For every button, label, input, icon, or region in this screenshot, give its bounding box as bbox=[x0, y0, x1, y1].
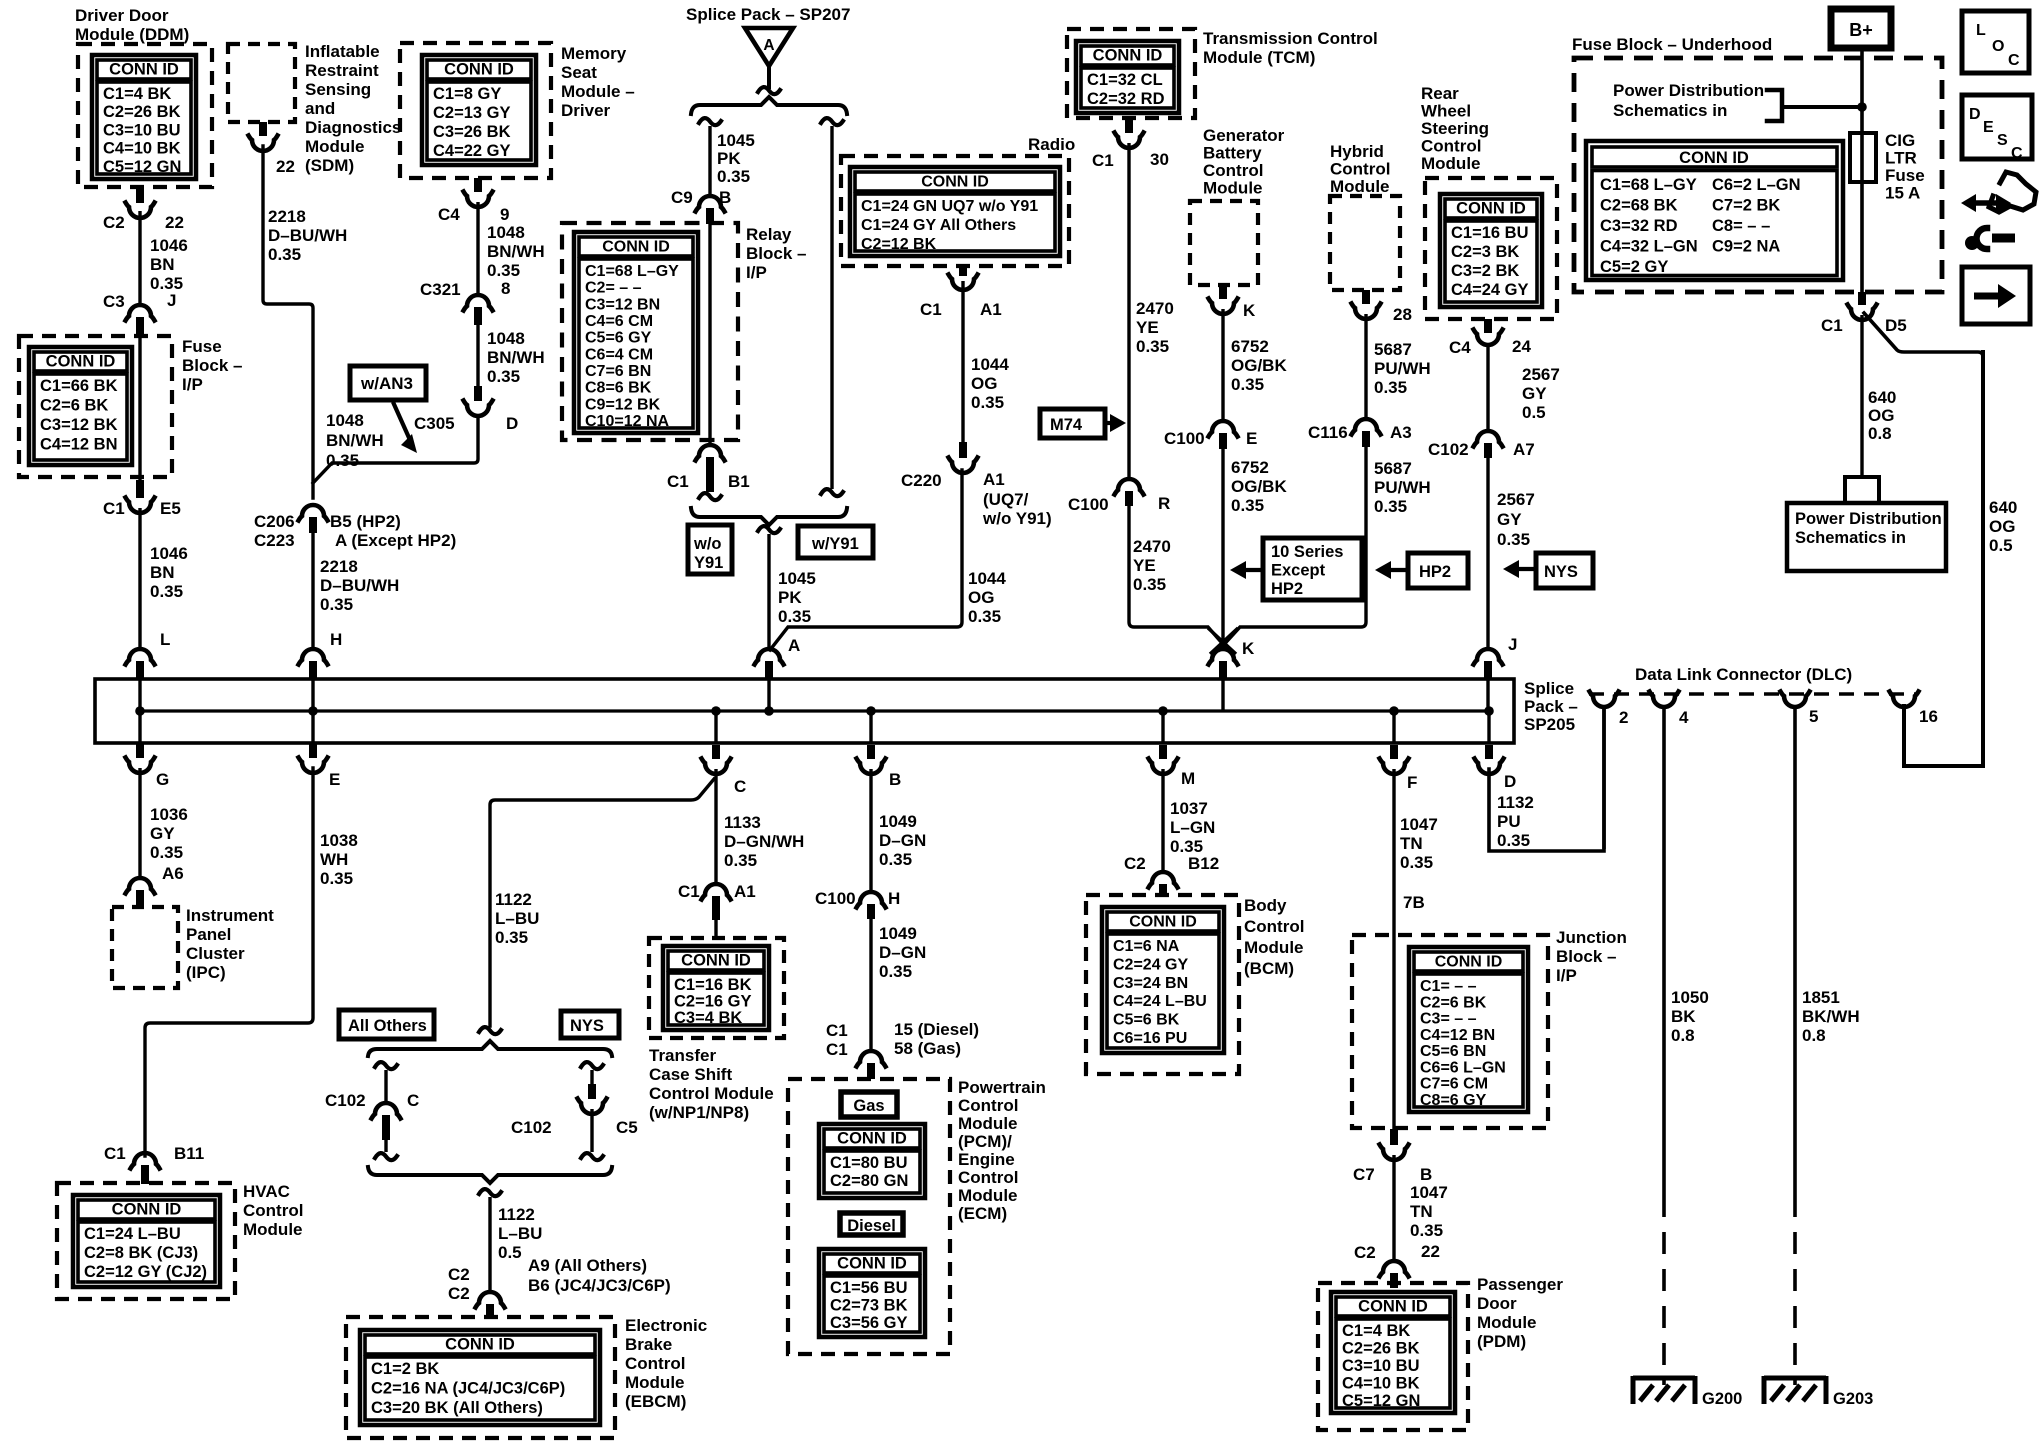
svg-text:Power Distribution: Power Distribution bbox=[1613, 81, 1764, 100]
svg-text:1046: 1046 bbox=[150, 544, 188, 563]
svg-text:0.35: 0.35 bbox=[1231, 375, 1264, 394]
svg-text:0.8: 0.8 bbox=[1868, 424, 1892, 443]
svg-text:OG: OG bbox=[971, 374, 997, 393]
svg-text:Control: Control bbox=[625, 1354, 685, 1373]
svg-text:Passenger: Passenger bbox=[1477, 1275, 1563, 1294]
svg-text:640: 640 bbox=[1989, 498, 2017, 517]
svg-text:C5=12 GN: C5=12 GN bbox=[1342, 1392, 1420, 1410]
svg-text:C223: C223 bbox=[254, 531, 295, 550]
svg-text:OG: OG bbox=[1989, 517, 2015, 536]
svg-text:0.35: 0.35 bbox=[1400, 853, 1433, 872]
svg-text:Module: Module bbox=[243, 1220, 303, 1239]
svg-text:NYS: NYS bbox=[1544, 563, 1578, 581]
svg-text:C2=3 BK: C2=3 BK bbox=[1451, 243, 1519, 261]
svg-text:J: J bbox=[167, 291, 176, 310]
svg-text:YE: YE bbox=[1133, 556, 1156, 575]
svg-text:8: 8 bbox=[501, 279, 510, 298]
svg-text:Driver: Driver bbox=[561, 101, 611, 120]
svg-text:Control: Control bbox=[958, 1096, 1018, 1115]
svg-text:C3=10 BU: C3=10 BU bbox=[103, 121, 181, 139]
svg-text:C8=6 BK: C8=6 BK bbox=[585, 380, 652, 397]
svg-text:A9 (All Others): A9 (All Others) bbox=[528, 1256, 647, 1275]
svg-text:TN: TN bbox=[1410, 1202, 1433, 1221]
svg-text:C1=32 CL: C1=32 CL bbox=[1087, 71, 1163, 89]
svg-text:1038: 1038 bbox=[320, 831, 358, 850]
svg-text:Control: Control bbox=[1330, 160, 1390, 179]
svg-text:B6 (JC4/JC3/C6P): B6 (JC4/JC3/C6P) bbox=[528, 1276, 671, 1295]
svg-text:Hybrid: Hybrid bbox=[1330, 142, 1384, 161]
svg-text:Rear: Rear bbox=[1421, 84, 1459, 103]
svg-text:C6=16 PU: C6=16 PU bbox=[1113, 1030, 1187, 1047]
svg-text:16: 16 bbox=[1919, 707, 1938, 726]
svg-text:C1=8 GY: C1=8 GY bbox=[433, 85, 501, 103]
svg-text:1122: 1122 bbox=[498, 1205, 535, 1224]
svg-text:0.35: 0.35 bbox=[717, 167, 750, 186]
svg-text:1046: 1046 bbox=[150, 236, 188, 255]
svg-text:C6=2 L–GN: C6=2 L–GN bbox=[1712, 176, 1801, 194]
svg-text:All Others: All Others bbox=[348, 1017, 427, 1035]
svg-text:1851: 1851 bbox=[1802, 988, 1840, 1007]
svg-text:B12: B12 bbox=[1188, 854, 1219, 873]
svg-text:C1=66 BK: C1=66 BK bbox=[40, 377, 118, 395]
svg-text:OG/BK: OG/BK bbox=[1231, 356, 1287, 375]
svg-text:K: K bbox=[1242, 639, 1255, 658]
svg-text:CONN ID: CONN ID bbox=[445, 1336, 515, 1354]
svg-text:0.35: 0.35 bbox=[724, 851, 757, 870]
svg-text:A: A bbox=[763, 37, 774, 54]
svg-text:C2=16 NA (JC4/JC3/C6P): C2=16 NA (JC4/JC3/C6P) bbox=[371, 1380, 565, 1398]
svg-text:R: R bbox=[1158, 494, 1170, 513]
svg-text:B: B bbox=[889, 770, 901, 789]
svg-text:Module (DDM): Module (DDM) bbox=[75, 25, 189, 44]
svg-text:Panel: Panel bbox=[186, 925, 231, 944]
svg-text:CONN ID: CONN ID bbox=[1435, 954, 1503, 971]
svg-text:Memory: Memory bbox=[561, 44, 627, 63]
svg-text:1037: 1037 bbox=[1170, 799, 1208, 818]
svg-text:C6=4 CM: C6=4 CM bbox=[585, 346, 653, 363]
svg-text:30: 30 bbox=[1150, 150, 1169, 169]
svg-text:Block –: Block – bbox=[746, 244, 806, 263]
svg-text:CONN ID: CONN ID bbox=[1093, 47, 1163, 65]
svg-text:2218: 2218 bbox=[268, 207, 306, 226]
svg-text:C1: C1 bbox=[1821, 316, 1843, 335]
svg-text:C321: C321 bbox=[420, 280, 461, 299]
svg-text:PU/WH: PU/WH bbox=[1374, 359, 1431, 378]
svg-text:Door: Door bbox=[1477, 1294, 1517, 1313]
svg-text:C2: C2 bbox=[448, 1265, 470, 1284]
svg-text:0.5: 0.5 bbox=[1522, 403, 1546, 422]
svg-text:Schematics in: Schematics in bbox=[1613, 101, 1727, 120]
svg-text:6752: 6752 bbox=[1231, 458, 1269, 477]
svg-text:Transfer: Transfer bbox=[649, 1046, 716, 1065]
svg-text:22: 22 bbox=[276, 157, 295, 176]
svg-text:D5: D5 bbox=[1885, 316, 1907, 335]
svg-text:C2: C2 bbox=[1354, 1243, 1376, 1262]
svg-text:6752: 6752 bbox=[1231, 337, 1269, 356]
svg-text:D–GN: D–GN bbox=[879, 831, 926, 850]
svg-text:Module: Module bbox=[1330, 177, 1390, 196]
svg-text:BN/WH: BN/WH bbox=[487, 242, 545, 261]
svg-text:C220: C220 bbox=[901, 471, 942, 490]
svg-text:B+: B+ bbox=[1849, 20, 1873, 40]
svg-text:1048: 1048 bbox=[487, 223, 525, 242]
svg-text:CONN ID: CONN ID bbox=[602, 239, 670, 256]
svg-text:0.35: 0.35 bbox=[268, 245, 301, 264]
svg-text:BN: BN bbox=[150, 563, 175, 582]
svg-text:I/P: I/P bbox=[746, 263, 767, 282]
svg-text:C3=56 GY: C3=56 GY bbox=[830, 1314, 908, 1332]
svg-text:BK: BK bbox=[1671, 1007, 1696, 1026]
svg-text:1048: 1048 bbox=[326, 411, 364, 430]
svg-text:Diagnostics: Diagnostics bbox=[305, 118, 401, 137]
svg-text:0.35: 0.35 bbox=[150, 843, 183, 862]
svg-text:CONN ID: CONN ID bbox=[1129, 914, 1197, 931]
svg-text:CONN ID: CONN ID bbox=[1358, 1298, 1428, 1316]
svg-text:2567: 2567 bbox=[1497, 490, 1535, 509]
svg-text:C1=68 L–GY: C1=68 L–GY bbox=[585, 263, 679, 280]
svg-text:Schematics in: Schematics in bbox=[1795, 529, 1906, 547]
svg-text:0.35: 0.35 bbox=[320, 869, 353, 888]
svg-text:0.35: 0.35 bbox=[879, 962, 912, 981]
svg-text:1036: 1036 bbox=[150, 805, 188, 824]
svg-text:OG: OG bbox=[968, 588, 994, 607]
svg-text:GY: GY bbox=[1497, 510, 1522, 529]
svg-text:C9=12 BK: C9=12 BK bbox=[585, 396, 661, 413]
svg-text:Case Shift: Case Shift bbox=[649, 1065, 732, 1084]
svg-text:1045: 1045 bbox=[717, 131, 755, 150]
svg-text:Fuse: Fuse bbox=[182, 337, 222, 356]
svg-text:(w/NP1/NP8): (w/NP1/NP8) bbox=[649, 1103, 749, 1122]
svg-text:C8=6 GY: C8=6 GY bbox=[1420, 1092, 1487, 1109]
svg-text:Module (TCM): Module (TCM) bbox=[1203, 48, 1315, 67]
svg-text:C2=8 BK (CJ3): C2=8 BK (CJ3) bbox=[84, 1244, 198, 1262]
svg-text:1132: 1132 bbox=[1497, 793, 1534, 812]
svg-text:Diesel: Diesel bbox=[847, 1217, 896, 1235]
svg-text:A6: A6 bbox=[162, 864, 184, 883]
svg-text:C4=32 L–GN: C4=32 L–GN bbox=[1600, 238, 1698, 256]
svg-text:w/o Y91): w/o Y91) bbox=[982, 509, 1052, 528]
svg-text:D–BU/WH: D–BU/WH bbox=[268, 226, 347, 245]
svg-text:J: J bbox=[1508, 635, 1517, 654]
svg-text:C1=16 BU: C1=16 BU bbox=[1451, 224, 1529, 242]
svg-text:0.35: 0.35 bbox=[1374, 378, 1407, 397]
svg-text:F: F bbox=[1407, 773, 1417, 792]
svg-text:C1=24 L–BU: C1=24 L–BU bbox=[84, 1225, 181, 1243]
svg-text:L–GN: L–GN bbox=[1170, 818, 1215, 837]
svg-text:Power Distribution: Power Distribution bbox=[1795, 510, 1942, 528]
svg-text:0.35: 0.35 bbox=[1410, 1221, 1443, 1240]
svg-text:C8= – –: C8= – – bbox=[1712, 217, 1770, 235]
svg-text:1049: 1049 bbox=[879, 924, 917, 943]
svg-text:C3=10 BU: C3=10 BU bbox=[1342, 1357, 1420, 1375]
svg-text:and: and bbox=[305, 99, 335, 118]
svg-text:(EBCM): (EBCM) bbox=[625, 1392, 686, 1411]
svg-text:1044: 1044 bbox=[971, 355, 1009, 374]
svg-text:2567: 2567 bbox=[1522, 365, 1560, 384]
svg-text:C2=73 BK: C2=73 BK bbox=[830, 1297, 908, 1315]
svg-text:M74: M74 bbox=[1050, 416, 1083, 434]
svg-text:Electronic: Electronic bbox=[625, 1316, 707, 1335]
svg-text:640: 640 bbox=[1868, 388, 1896, 407]
svg-text:C1: C1 bbox=[826, 1040, 848, 1059]
svg-text:0.8: 0.8 bbox=[1802, 1026, 1826, 1045]
svg-text:PK: PK bbox=[717, 149, 741, 168]
svg-text:Sensing: Sensing bbox=[305, 80, 371, 99]
svg-text:C2: C2 bbox=[448, 1284, 470, 1303]
svg-text:Module: Module bbox=[1421, 154, 1481, 173]
svg-text:Junction: Junction bbox=[1556, 928, 1627, 947]
svg-text:C4=6 CM: C4=6 CM bbox=[585, 313, 653, 330]
svg-text:C1: C1 bbox=[920, 300, 942, 319]
svg-text:0.35: 0.35 bbox=[1374, 497, 1407, 516]
svg-text:0.35: 0.35 bbox=[1136, 337, 1169, 356]
svg-text:C4: C4 bbox=[438, 205, 460, 224]
svg-text:L–BU: L–BU bbox=[495, 909, 539, 928]
svg-text:Seat: Seat bbox=[561, 63, 597, 82]
svg-text:C1=80 BU: C1=80 BU bbox=[830, 1154, 908, 1172]
svg-text:D–GN/WH: D–GN/WH bbox=[724, 832, 804, 851]
svg-text:5: 5 bbox=[1809, 707, 1818, 726]
svg-text:0.35: 0.35 bbox=[1133, 575, 1166, 594]
svg-text:(SDM): (SDM) bbox=[305, 156, 354, 175]
svg-text:CONN ID: CONN ID bbox=[1456, 200, 1526, 218]
svg-text:I/P: I/P bbox=[182, 375, 203, 394]
svg-text:C2=16 GY: C2=16 GY bbox=[674, 993, 752, 1011]
svg-text:C5=12 GN: C5=12 GN bbox=[103, 158, 181, 176]
svg-text:(ECM): (ECM) bbox=[958, 1204, 1007, 1223]
svg-text:C1=4 BK: C1=4 BK bbox=[103, 85, 171, 103]
svg-text:C2=24 GY: C2=24 GY bbox=[1113, 956, 1188, 973]
svg-text:Module: Module bbox=[625, 1373, 685, 1392]
svg-text:0.35: 0.35 bbox=[778, 607, 811, 626]
svg-text:C2=80 GN: C2=80 GN bbox=[830, 1172, 908, 1190]
svg-text:C2= – –: C2= – – bbox=[585, 280, 642, 297]
svg-text:C305: C305 bbox=[414, 414, 455, 433]
svg-text:C2=26 BK: C2=26 BK bbox=[1342, 1340, 1420, 1358]
svg-text:Module: Module bbox=[1244, 938, 1304, 957]
svg-text:C1: C1 bbox=[1092, 151, 1114, 170]
svg-text:SP205: SP205 bbox=[1524, 715, 1575, 734]
svg-text:Control: Control bbox=[1421, 137, 1481, 156]
svg-text:E: E bbox=[1983, 119, 1994, 136]
svg-text:Control Module: Control Module bbox=[649, 1084, 774, 1103]
svg-text:C102: C102 bbox=[325, 1091, 366, 1110]
svg-text:5687: 5687 bbox=[1374, 340, 1412, 359]
svg-text:HVAC: HVAC bbox=[243, 1182, 290, 1201]
svg-text:58 (Gas): 58 (Gas) bbox=[894, 1039, 961, 1058]
svg-text:C9=2 NA: C9=2 NA bbox=[1712, 238, 1780, 256]
svg-text:C1: C1 bbox=[667, 472, 689, 491]
svg-text:0.35: 0.35 bbox=[320, 595, 353, 614]
svg-text:A7: A7 bbox=[1513, 440, 1535, 459]
svg-text:B5 (HP2): B5 (HP2) bbox=[330, 512, 401, 531]
svg-text:Block –: Block – bbox=[182, 356, 242, 375]
svg-text:C7: C7 bbox=[1353, 1165, 1375, 1184]
svg-text:1045: 1045 bbox=[778, 569, 816, 588]
svg-text:G: G bbox=[156, 770, 169, 789]
svg-text:D–BU/WH: D–BU/WH bbox=[320, 576, 399, 595]
svg-text:HP2: HP2 bbox=[1271, 580, 1303, 598]
svg-text:B11: B11 bbox=[174, 1144, 204, 1163]
svg-text:Steering: Steering bbox=[1421, 119, 1489, 138]
svg-text:1133: 1133 bbox=[724, 813, 761, 832]
svg-text:C116: C116 bbox=[1308, 423, 1348, 442]
svg-text:Inflatable: Inflatable bbox=[305, 42, 380, 61]
svg-text:C4=12 BN: C4=12 BN bbox=[40, 436, 118, 454]
svg-text:C3=20 BK (All Others): C3=20 BK (All Others) bbox=[371, 1399, 543, 1417]
svg-text:C3=4 BK: C3=4 BK bbox=[674, 1009, 742, 1027]
svg-text:28: 28 bbox=[1393, 305, 1412, 324]
svg-text:C5: C5 bbox=[616, 1118, 638, 1137]
svg-text:Splice: Splice bbox=[1524, 679, 1574, 698]
svg-text:Body: Body bbox=[1244, 896, 1287, 915]
svg-text:Fuse: Fuse bbox=[1885, 166, 1925, 185]
svg-text:C2: C2 bbox=[1124, 854, 1146, 873]
svg-text:C100: C100 bbox=[815, 889, 856, 908]
svg-text:1047: 1047 bbox=[1400, 815, 1438, 834]
svg-text:Transmission Control: Transmission Control bbox=[1203, 29, 1378, 48]
svg-text:C10=12 NA: C10=12 NA bbox=[585, 413, 669, 430]
svg-text:S: S bbox=[1997, 132, 2008, 149]
svg-text:C4: C4 bbox=[1449, 338, 1471, 357]
svg-text:1122: 1122 bbox=[495, 890, 532, 909]
svg-text:C7=6 CM: C7=6 CM bbox=[1420, 1076, 1488, 1093]
svg-text:D: D bbox=[506, 414, 518, 433]
svg-text:A1: A1 bbox=[983, 470, 1005, 489]
svg-text:Y91: Y91 bbox=[694, 554, 723, 572]
svg-text:GY: GY bbox=[1522, 384, 1547, 403]
svg-text:24: 24 bbox=[1512, 337, 1531, 356]
svg-text:M: M bbox=[1181, 769, 1195, 788]
svg-text:10 Series: 10 Series bbox=[1271, 543, 1343, 561]
svg-text:C: C bbox=[2011, 145, 2023, 162]
svg-text:C3= – –: C3= – – bbox=[1420, 1011, 1477, 1028]
svg-text:C4=10 BK: C4=10 BK bbox=[1342, 1375, 1420, 1393]
svg-text:C2=26 BK: C2=26 BK bbox=[103, 103, 181, 121]
svg-text:D: D bbox=[1504, 772, 1516, 791]
svg-text:15 A: 15 A bbox=[1885, 184, 1920, 203]
svg-text:1050: 1050 bbox=[1671, 988, 1709, 1007]
svg-text:CONN ID: CONN ID bbox=[837, 1130, 907, 1148]
svg-text:C1=6 NA: C1=6 NA bbox=[1113, 938, 1180, 955]
svg-text:C4=24 L–BU: C4=24 L–BU bbox=[1113, 993, 1207, 1010]
svg-text:C: C bbox=[734, 777, 746, 796]
svg-text:C2=6 BK: C2=6 BK bbox=[1420, 994, 1487, 1011]
svg-text:Gas: Gas bbox=[853, 1097, 884, 1115]
svg-text:CONN ID: CONN ID bbox=[837, 1255, 907, 1273]
svg-text:C3=12 BK: C3=12 BK bbox=[40, 416, 118, 434]
svg-text:C2=6 BK: C2=6 BK bbox=[40, 397, 108, 415]
svg-text:22: 22 bbox=[1421, 1242, 1440, 1261]
svg-text:Control: Control bbox=[243, 1201, 303, 1220]
svg-text:C100: C100 bbox=[1164, 429, 1205, 448]
svg-text:GY: GY bbox=[150, 824, 175, 843]
svg-text:Fuse Block – Underhood: Fuse Block – Underhood bbox=[1572, 35, 1772, 54]
svg-text:OG/BK: OG/BK bbox=[1231, 477, 1287, 496]
svg-text:2470: 2470 bbox=[1133, 537, 1171, 556]
svg-text:Module: Module bbox=[305, 137, 365, 156]
svg-text:L: L bbox=[160, 630, 170, 649]
svg-text:C: C bbox=[407, 1091, 419, 1110]
svg-text:C1=4 BK: C1=4 BK bbox=[1342, 1322, 1410, 1340]
svg-text:Control: Control bbox=[1244, 917, 1304, 936]
svg-text:A1: A1 bbox=[980, 300, 1002, 319]
svg-text:C7=6 BN: C7=6 BN bbox=[585, 363, 651, 380]
svg-text:1049: 1049 bbox=[879, 812, 917, 831]
svg-text:Splice Pack – SP207: Splice Pack – SP207 bbox=[686, 5, 850, 24]
svg-text:0.35: 0.35 bbox=[879, 850, 912, 869]
svg-text:Driver Door: Driver Door bbox=[75, 6, 169, 25]
svg-text:C2=12 BK: C2=12 BK bbox=[861, 236, 937, 253]
svg-text:Module: Module bbox=[958, 1186, 1018, 1205]
svg-text:PU/WH: PU/WH bbox=[1374, 478, 1431, 497]
svg-text:Module: Module bbox=[1477, 1313, 1537, 1332]
svg-text:Powertrain: Powertrain bbox=[958, 1078, 1046, 1097]
svg-text:H: H bbox=[330, 630, 342, 649]
svg-text:D–GN: D–GN bbox=[879, 943, 926, 962]
svg-text:C102: C102 bbox=[511, 1118, 552, 1137]
svg-text:D: D bbox=[1969, 106, 1981, 123]
svg-text:C2: C2 bbox=[103, 213, 125, 232]
svg-text:YE: YE bbox=[1136, 318, 1159, 337]
svg-text:0.35: 0.35 bbox=[495, 928, 528, 947]
svg-text:A3: A3 bbox=[1390, 423, 1412, 442]
svg-text:w/o: w/o bbox=[693, 535, 722, 553]
svg-text:B: B bbox=[1420, 1165, 1432, 1184]
svg-text:Brake: Brake bbox=[625, 1335, 672, 1354]
svg-text:0.5: 0.5 bbox=[498, 1243, 522, 1262]
svg-text:Radio: Radio bbox=[1028, 135, 1075, 154]
svg-text:E: E bbox=[1246, 429, 1257, 448]
svg-text:C3=24 BN: C3=24 BN bbox=[1113, 975, 1188, 992]
svg-text:C1= – –: C1= – – bbox=[1420, 978, 1477, 995]
svg-text:G203: G203 bbox=[1833, 1390, 1873, 1408]
svg-text:L–BU: L–BU bbox=[498, 1224, 542, 1243]
svg-text:C4=10 BK: C4=10 BK bbox=[103, 140, 181, 158]
svg-text:C1: C1 bbox=[678, 882, 700, 901]
svg-text:7B: 7B bbox=[1403, 893, 1425, 912]
svg-text:C5=2 GY: C5=2 GY bbox=[1600, 258, 1668, 276]
svg-text:4: 4 bbox=[1679, 708, 1689, 727]
svg-text:C2=12 GY (CJ2): C2=12 GY (CJ2) bbox=[84, 1263, 207, 1281]
svg-text:CONN ID: CONN ID bbox=[112, 1201, 182, 1219]
svg-text:H: H bbox=[888, 889, 900, 908]
svg-text:HP2: HP2 bbox=[1419, 563, 1451, 581]
svg-text:(IPC): (IPC) bbox=[186, 963, 226, 982]
svg-text:C5=6 BK: C5=6 BK bbox=[1113, 1012, 1180, 1029]
svg-text:C7=2 BK: C7=2 BK bbox=[1712, 197, 1780, 215]
svg-text:Generator: Generator bbox=[1203, 126, 1285, 145]
svg-text:w/AN3: w/AN3 bbox=[360, 374, 413, 393]
svg-text:CONN ID: CONN ID bbox=[921, 174, 989, 191]
svg-text:0.35: 0.35 bbox=[326, 451, 359, 470]
svg-text:C3=12 BN: C3=12 BN bbox=[585, 296, 660, 313]
svg-text:(UQ7/: (UQ7/ bbox=[983, 490, 1029, 509]
svg-text:0.5: 0.5 bbox=[1989, 536, 2013, 555]
svg-text:BN/WH: BN/WH bbox=[326, 431, 384, 450]
svg-text:Relay: Relay bbox=[746, 225, 792, 244]
svg-text:TN: TN bbox=[1400, 834, 1423, 853]
svg-text:C5=6 BN: C5=6 BN bbox=[1420, 1043, 1486, 1060]
svg-text:C3: C3 bbox=[103, 292, 125, 311]
svg-text:E5: E5 bbox=[160, 499, 181, 518]
svg-text:C3=26 BK: C3=26 BK bbox=[433, 123, 511, 141]
svg-text:C100: C100 bbox=[1068, 495, 1109, 514]
svg-text:0.35: 0.35 bbox=[971, 393, 1004, 412]
svg-text:0.35: 0.35 bbox=[968, 607, 1001, 626]
svg-text:Module: Module bbox=[958, 1114, 1018, 1133]
svg-text:Wheel: Wheel bbox=[1421, 102, 1471, 121]
